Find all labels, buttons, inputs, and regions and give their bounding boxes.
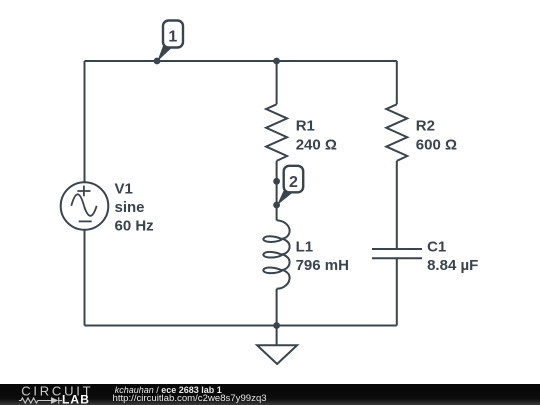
- V1 minus sign: [79, 220, 92, 222]
- svg-text:L1: L1: [296, 239, 314, 256]
- wire: R1 branch top: [276, 61, 278, 104]
- resistor R1: [266, 104, 287, 161]
- node flag 2 tail: [277, 188, 292, 206]
- inductor L1: [263, 220, 289, 288]
- node junction dot (bottom wire / ground): [273, 322, 280, 329]
- node flag 2 box: [284, 166, 304, 193]
- wire: left vertical (V1 branch bottom): [84, 230, 86, 326]
- voltage source V1 circle: [61, 182, 109, 230]
- node junction dot (flag 2 attach): [273, 202, 280, 209]
- svg-text:LAB: LAB: [62, 392, 90, 405]
- wire: bottom horizontal: [85, 325, 397, 327]
- V1 plus sign: [77, 186, 90, 197]
- svg-text:sine: sine: [115, 199, 145, 216]
- node flag 1 box: [163, 21, 183, 48]
- wire: top horizontal: [85, 60, 397, 62]
- svg-text:2: 2: [289, 174, 298, 191]
- wire: left vertical (V1 branch top): [84, 61, 86, 182]
- svg-text:796 mH: 796 mH: [296, 257, 349, 274]
- capacitor C1: [372, 248, 422, 250]
- wire: R2 to C1: [396, 161, 398, 249]
- CircuitLab logo: [0, 384, 100, 405]
- svg-text:60 Hz: 60 Hz: [115, 217, 154, 234]
- wire: R2 branch top: [396, 61, 398, 104]
- node junction dot (top wire / R1 branch): [273, 58, 280, 65]
- node flag 1 tail: [157, 43, 171, 62]
- ground: [276, 326, 278, 346]
- node junction dot (top, flag 1): [154, 58, 161, 65]
- node junction dot (R1 bottom): [273, 178, 280, 185]
- resistor R2: [386, 104, 407, 161]
- V1 sine symbol: [71, 194, 96, 216]
- svg-text:600 Ω: 600 Ω: [416, 136, 457, 153]
- wire: L1 bottom: [276, 289, 278, 326]
- svg-text:R1: R1: [296, 118, 315, 135]
- wire: R1 to L1: [276, 161, 278, 220]
- svg-text:V1: V1: [115, 181, 133, 198]
- svg-text:240 Ω: 240 Ω: [296, 136, 337, 153]
- wire: C1 bottom: [396, 258, 398, 325]
- svg-text:1: 1: [168, 28, 177, 45]
- svg-text:8.84 µF: 8.84 µF: [427, 257, 478, 274]
- footer bar: [0, 384, 540, 405]
- svg-text:C1: C1: [427, 239, 446, 256]
- svg-text:R2: R2: [416, 118, 435, 135]
